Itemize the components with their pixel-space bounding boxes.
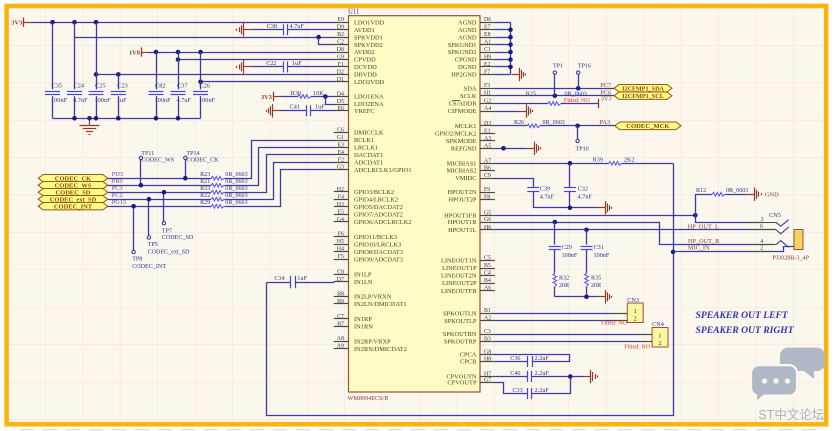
capacitor C40 2.2uF	[495, 370, 584, 382]
pin F3 SDA (right)	[464, 83, 495, 92]
svg-text:1uF: 1uF	[297, 275, 307, 282]
svg-text:A6: A6	[484, 286, 491, 292]
svg-text:B5: B5	[484, 263, 491, 269]
junction MCLK/TP10	[575, 124, 580, 129]
resistor R21 0R_0603	[200, 179, 248, 187]
svg-text:A8: A8	[337, 336, 344, 342]
svg-text:LDO1ENA: LDO1ENA	[354, 94, 384, 101]
svg-text:F5: F5	[338, 254, 344, 260]
svg-text:PC7: PC7	[600, 82, 611, 89]
svg-text:C4: C4	[484, 271, 491, 277]
ground (C22)	[237, 60, 251, 74]
wire SPKOUTRP	[495, 341, 638, 343]
capacitor C23 1uF	[111, 74, 128, 118]
svg-text:1V8: 1V8	[129, 49, 140, 56]
svg-text:GPIO2/MCLK2: GPIO2/MCLK2	[435, 131, 477, 138]
pin B4 LINEOUT2P (right)	[442, 278, 495, 287]
svg-text:PC3: PC3	[112, 185, 123, 192]
wire jack pin3	[696, 216, 764, 223]
svg-text:1uF: 1uF	[292, 60, 302, 67]
svg-text:AGND: AGND	[458, 19, 477, 26]
svg-text:IN2RP/VRXP: IN2RP/VRXP	[354, 338, 391, 345]
label Fitted NO (CN3)	[601, 321, 628, 327]
capacitor C35 100nF	[45, 22, 68, 118]
svg-text:H1: H1	[484, 91, 491, 97]
svg-text:U11: U11	[348, 9, 359, 16]
svg-text:D1: D1	[337, 77, 344, 83]
resistor R39 2K2	[593, 158, 673, 166]
svg-text:C8: C8	[337, 269, 344, 275]
svg-text:G7: G7	[484, 378, 491, 384]
svg-text:R29: R29	[200, 200, 210, 206]
svg-text:LINEOUT1P: LINEOUT1P	[442, 265, 477, 272]
pin G6 HPOUT1R (right)	[448, 217, 495, 226]
svg-text:10K: 10K	[313, 90, 324, 97]
pin D3 MCLK1 (right)	[455, 121, 495, 130]
pin B3 SPKOUTRP (right)	[444, 336, 495, 345]
pin B6 MICBIAS2 (right)	[447, 166, 495, 175]
pin D5 LDO2ENA (left)	[334, 99, 384, 108]
pin A4 CIFMODE (right)	[448, 106, 495, 115]
svg-text:G2: G2	[484, 99, 491, 105]
wire CODEC_SD to IC	[225, 155, 335, 193]
svg-text:0R_0603: 0R_0603	[225, 186, 247, 192]
svg-text:E3: E3	[337, 143, 344, 149]
svg-text:CODEC_ext_SD: CODEC_ext_SD	[148, 250, 191, 256]
svg-text:I2CFMP1_SDA: I2CFMP1_SDA	[622, 85, 664, 92]
junction 3V3/C24	[72, 20, 77, 25]
pin F1 DCVDD (left)	[334, 62, 377, 71]
svg-text:F9: F9	[484, 187, 490, 193]
svg-text:SPKVDD2: SPKVDD2	[354, 42, 383, 49]
svg-text:A2: A2	[484, 316, 491, 322]
wire SCLK	[495, 93, 614, 98]
capacitor C25 100nF	[89, 22, 112, 118]
pin F9 HPOUT2N (right)	[447, 187, 494, 196]
svg-text:SPKOUTLN: SPKOUTLN	[443, 310, 477, 317]
svg-text:1: 1	[658, 332, 661, 339]
pin C8 IN1LP (left)	[334, 269, 372, 278]
connector CN5 pin 2	[747, 245, 776, 251]
svg-text:TP14: TP14	[186, 151, 199, 157]
wire lineout gnd bus	[555, 295, 598, 300]
node PA3	[600, 119, 611, 126]
svg-text:IN1LN: IN1LN	[354, 279, 373, 286]
capacitor C39 4.7nF	[527, 186, 554, 208]
capacitor C24 4.7nF	[67, 22, 88, 118]
svg-text:A9: A9	[337, 344, 344, 350]
svg-text:A3: A3	[484, 136, 491, 142]
junction 3V3/C35	[50, 20, 55, 25]
svg-text:B6: B6	[484, 166, 491, 172]
resistor R25 0R_0603	[526, 91, 599, 105]
svg-text:SPKGND2: SPKGND2	[448, 49, 477, 56]
watermark logo ST forum	[751, 348, 825, 422]
capacitor C29 100nF	[549, 222, 578, 273]
svg-text:1: 1	[634, 308, 637, 315]
pin H7 CPVOUTN (right)	[446, 372, 494, 381]
svg-text:0R_0603: 0R_0603	[726, 188, 748, 194]
svg-text:GND: GND	[765, 191, 779, 198]
svg-text:SPKGND1: SPKGND1	[448, 42, 477, 49]
resistor R33 0R_0603	[200, 186, 248, 194]
svg-text:B7: B7	[337, 321, 344, 327]
svg-text:PB9: PB9	[112, 178, 123, 185]
svg-text:B2: B2	[337, 32, 344, 38]
pin F6 GPIO11/BCLK3 (left)	[334, 232, 397, 241]
svg-text:Fitted: NO: Fitted: NO	[601, 321, 628, 327]
svg-text:CPGND: CPGND	[455, 57, 477, 64]
ground (VMIDC)	[598, 201, 612, 215]
svg-text:SPKMODE: SPKMODE	[446, 138, 477, 145]
wire CODEC_ext_SD row	[108, 199, 211, 201]
svg-text:E9: E9	[337, 17, 344, 23]
pin G5 HPOUT1FB (right)	[444, 210, 495, 219]
svg-text:GPIO3/BCLK2: GPIO3/BCLK2	[354, 189, 394, 196]
svg-text:A5: A5	[484, 143, 491, 149]
pin F8 HPOUT2P (right)	[448, 195, 494, 204]
svg-text:GPIO5/DACDAT2: GPIO5/DACDAT2	[354, 204, 403, 211]
svg-text:0R_0603: 0R_0603	[225, 172, 247, 178]
svg-text:MICBIAS1: MICBIAS1	[447, 161, 477, 168]
svg-text:SPKOUTRN: SPKOUTRN	[443, 331, 477, 338]
svg-text:AGND: AGND	[458, 34, 477, 41]
capacitor C41 1uF	[280, 103, 335, 116]
pin F2 ADCDAT1 (left)	[334, 157, 383, 166]
svg-text:100nF: 100nF	[95, 97, 112, 104]
svg-text:2.2uF: 2.2uF	[535, 370, 550, 377]
capacitor C26 100nF	[193, 52, 216, 118]
svg-text:A4: A4	[484, 106, 491, 112]
svg-text:TP16: TP16	[578, 63, 591, 69]
svg-text:PJ3028B-3_4P: PJ3028B-3_4P	[772, 256, 809, 262]
svg-text:F8: F8	[484, 195, 490, 201]
svg-text:PA3: PA3	[600, 119, 611, 126]
svg-text:REFGND: REFGND	[451, 146, 477, 153]
svg-text:R23: R23	[200, 172, 210, 178]
svg-text:IN2LP/VRXN: IN2LP/VRXN	[354, 294, 392, 301]
svg-text:F1: F1	[338, 62, 344, 68]
pin D2 DBVDD (left)	[334, 69, 377, 78]
pin A9 IN2RN/DMICDAT2 (left)	[334, 344, 407, 353]
test point TP8 CODEC_INT	[131, 204, 166, 270]
junction LDO1ENA	[323, 94, 328, 99]
svg-text:MICBIAS2: MICBIAS2	[447, 168, 477, 175]
power port 1V8	[129, 47, 148, 56]
svg-text:B1: B1	[484, 308, 491, 314]
svg-text:C1: C1	[484, 47, 491, 53]
svg-text:HP_OUT_L: HP_OUT_L	[688, 223, 719, 230]
svg-text:C39: C39	[540, 186, 550, 193]
svg-text:MCLK1: MCLK1	[455, 123, 477, 130]
label SPEAKER OUT RIGHT	[696, 325, 795, 336]
svg-text:C35: C35	[52, 82, 63, 89]
svg-text:1uF: 1uF	[117, 97, 127, 104]
svg-text:LINEOUT2N: LINEOUT2N	[441, 273, 477, 280]
svg-text:AGND: AGND	[458, 27, 477, 34]
svg-text:AVDD2: AVDD2	[354, 49, 375, 56]
wire CODEC_WS row	[108, 185, 211, 187]
svg-text:LRCLK1: LRCLK1	[354, 145, 378, 152]
test point TP7 CODEC_SD	[162, 190, 194, 241]
pin A3 SPKMODE (right)	[446, 136, 495, 145]
pin E8 AGND (right)	[458, 32, 495, 41]
wire LDO2ENA jog	[326, 97, 335, 105]
ground (R32/R35)	[598, 290, 612, 304]
resistor R23 0R_0603	[200, 172, 248, 180]
pin H6 HPOUT1L (right)	[448, 225, 495, 234]
svg-text:0R_0603: 0R_0603	[225, 200, 247, 206]
ground (CIFMODE)	[495, 104, 533, 118]
capacitor C31 100nF	[581, 230, 610, 273]
node PC2	[112, 192, 123, 199]
svg-text:4.7nF: 4.7nF	[540, 194, 555, 201]
svg-text:G8: G8	[484, 349, 491, 355]
svg-text:CODEC_CK: CODEC_CK	[186, 157, 219, 163]
pin B2 SPKVDD1 (left)	[334, 32, 383, 41]
svg-text:F3: F3	[484, 83, 490, 89]
svg-text:100nF: 100nF	[199, 97, 216, 104]
svg-text:CPVOUTP: CPVOUTP	[447, 380, 477, 387]
svg-text:AVDD1: AVDD1	[354, 27, 375, 34]
capacitor C36 2.2uF	[495, 355, 570, 368]
test point TP1	[553, 63, 563, 95]
resistor R26 0R_0603	[514, 120, 615, 127]
svg-text:D8: D8	[337, 47, 344, 53]
svg-text:A7: A7	[484, 158, 491, 164]
pin C7 IN1RP (left)	[334, 314, 373, 323]
pin H3 GPIO5/DACDAT2 (left)	[334, 202, 403, 211]
pin H2 GPIO3/BCLK2 (left)	[334, 187, 394, 196]
wire CS/ADDR	[495, 103, 548, 105]
svg-text:IN2RN/DMICDAT2: IN2RN/DMICDAT2	[354, 346, 407, 353]
pin H4 GPIO8/DACDAT3 (left)	[334, 247, 403, 256]
pin E6 VREFC (left)	[334, 106, 375, 115]
svg-text:D5: D5	[337, 99, 344, 105]
wire SDA	[495, 86, 614, 91]
pin H5 GPIO10/LRCLK3 (left)	[334, 239, 402, 248]
artifact dashes below frame	[20, 429, 820, 431]
svg-text:B9: B9	[337, 299, 344, 305]
svg-text:2: 2	[658, 340, 661, 347]
svg-text:HPOUT2N: HPOUT2N	[447, 189, 476, 196]
svg-text:2: 2	[760, 245, 763, 251]
svg-text:VREFC: VREFC	[354, 108, 375, 115]
wire 3V3 rail to LDO1VDD	[30, 22, 334, 24]
svg-text:IN1RP: IN1RP	[354, 316, 372, 323]
connector CN3	[613, 297, 643, 323]
pin D6 AGND (right)	[458, 17, 495, 26]
capacitor C32 4.7nF	[564, 163, 593, 208]
svg-text:R39: R39	[593, 158, 603, 164]
wire VMIDC gnd bus	[533, 206, 598, 211]
pin B5 LINEOUT1P (right)	[442, 263, 495, 272]
svg-text:4.7uF: 4.7uF	[177, 97, 192, 104]
wire SPKVDD (B2 row)	[75, 35, 335, 40]
svg-text:WM8994ECS/R: WM8994ECS/R	[348, 395, 390, 402]
svg-text:H8: H8	[484, 357, 491, 363]
svg-text:2.2uF: 2.2uF	[535, 387, 550, 394]
ground (REFGND)	[495, 142, 541, 156]
svg-text:LDO2VDD: LDO2VDD	[354, 79, 385, 86]
node PB9	[112, 178, 123, 185]
svg-text:LDO1VDD: LDO1VDD	[354, 19, 385, 26]
ground (C38)	[237, 23, 251, 37]
wire DBVDD (D2 row)	[94, 72, 335, 77]
port CODEC_WS	[38, 182, 108, 190]
svg-text:CODEC_SD: CODEC_SD	[162, 235, 194, 241]
svg-text:PD3: PD3	[112, 171, 123, 178]
svg-text:100nF: 100nF	[155, 97, 172, 104]
svg-text:4.7nF: 4.7nF	[578, 194, 593, 201]
svg-text:4.7nF: 4.7nF	[73, 97, 88, 104]
svg-text:MIC_IN: MIC_IN	[688, 245, 710, 252]
connector CN5 label	[769, 212, 781, 219]
svg-text:C2: C2	[337, 40, 344, 46]
connector CN5 pin 3	[747, 217, 789, 226]
svg-text:3V3: 3V3	[261, 94, 272, 101]
svg-text:2K2: 2K2	[624, 158, 635, 164]
svg-text:LINEOUT2P: LINEOUT2P	[442, 280, 477, 287]
pin A2 SPKOUTLP (right)	[444, 316, 495, 325]
svg-text:E7: E7	[484, 25, 491, 31]
node PC3	[112, 185, 123, 192]
pin D7 IN1LN (left)	[334, 277, 373, 286]
wire cap ground bus	[53, 116, 201, 121]
svg-text:G5: G5	[484, 210, 491, 216]
pin B9 IN2LN/DMICDAT1 (left)	[334, 299, 407, 308]
power port 3V3 (R25)	[599, 96, 612, 108]
svg-text:HPOUT1L: HPOUT1L	[448, 227, 476, 234]
svg-text:TP11: TP11	[141, 151, 154, 157]
svg-text:HPOUT2P: HPOUT2P	[448, 197, 476, 204]
wire SPKOUTLN	[495, 313, 613, 315]
svg-text:1uF: 1uF	[315, 103, 325, 110]
ground (CPVOUT)	[583, 370, 597, 384]
svg-text:IN1RN: IN1RN	[354, 324, 373, 331]
pin E5 GPIO7/ADCDAT2 (left)	[334, 209, 403, 218]
svg-text:R35: R35	[591, 276, 601, 282]
ground GND (R12)	[747, 187, 779, 201]
pin A8 IN2RP/VRXP (left)	[334, 336, 391, 345]
wire LDO2VDD (D1 row)	[198, 80, 334, 85]
svg-text:2.2uF: 2.2uF	[535, 355, 550, 362]
svg-text:E8: E8	[484, 32, 491, 38]
svg-text:ADCDAT1: ADCDAT1	[354, 160, 383, 167]
svg-text:D3: D3	[484, 121, 491, 127]
svg-text:GPIO6/ADCLRCLK2: GPIO6/ADCLRCLK2	[354, 219, 412, 226]
svg-text:B8: B8	[337, 291, 344, 297]
capacitor C82 100nF	[149, 52, 172, 118]
svg-text:CODEC_INT: CODEC_INT	[54, 203, 93, 210]
svg-text:F6: F6	[338, 232, 344, 238]
svg-text:E2: E2	[484, 62, 491, 68]
svg-text:TP5: TP5	[148, 242, 158, 248]
port CODEC_SD	[38, 189, 108, 197]
wire SPKOUTRN	[495, 334, 638, 336]
svg-text:TP7: TP7	[162, 228, 172, 234]
svg-text:G1: G1	[337, 135, 344, 141]
label Fitted NO (CN4)	[624, 344, 651, 350]
wire CODEC_SD row	[108, 192, 211, 194]
svg-text:C29: C29	[562, 244, 572, 251]
svg-text:C33: C33	[512, 387, 522, 394]
svg-text:H9: H9	[484, 55, 491, 61]
svg-text:C23: C23	[117, 82, 128, 89]
svg-text:C32: C32	[578, 186, 588, 193]
svg-text:4.7uF: 4.7uF	[290, 23, 305, 30]
capacitor C37 4.7uF	[171, 52, 192, 118]
pin D4 LDO1ENA (left)	[334, 92, 384, 101]
pin G7 CPVOUTP (right)	[447, 378, 494, 387]
svg-text:R21: R21	[200, 179, 210, 185]
svg-text:F2: F2	[338, 157, 344, 163]
pin C6 DMICCLK (left)	[334, 128, 384, 137]
port CODEC_CK	[38, 175, 108, 183]
svg-text:F4: F4	[338, 194, 344, 200]
pin B8 IN2LP/VRXN (left)	[334, 291, 392, 300]
connector CN4	[638, 321, 668, 347]
svg-text:20R: 20R	[559, 283, 570, 289]
node PD3	[112, 171, 123, 178]
ground (C41)	[267, 104, 281, 118]
connector CN5 pin 4	[747, 239, 789, 247]
pin A1 SPKGND1 (right)	[448, 40, 495, 49]
svg-text:CIFMODE: CIFMODE	[448, 108, 477, 115]
pin A6 LINEOUTFB (right)	[441, 286, 495, 295]
svg-text:ST中文论坛: ST中文论坛	[758, 407, 824, 422]
test point TP11 CODEC_WS	[139, 151, 175, 188]
svg-text:GPIO10/LRCLK3: GPIO10/LRCLK3	[354, 241, 401, 248]
resistor R22 0R_0603	[200, 193, 248, 201]
label SPEAKER OUT LEFT	[696, 310, 789, 321]
wire SPKOUTLP	[495, 320, 613, 322]
svg-text:C40: C40	[510, 370, 520, 377]
svg-text:R30: R30	[291, 90, 301, 97]
pin B1 SPKOUTLN (right)	[443, 308, 495, 317]
svg-text:SPEAKER OUT LEFT: SPEAKER OUT LEFT	[696, 310, 789, 321]
svg-text:TP1: TP1	[553, 63, 563, 69]
pin A5 REFGND (right)	[451, 143, 495, 152]
svg-text:C36: C36	[510, 355, 520, 362]
svg-text:CODEC_WS: CODEC_WS	[141, 157, 174, 163]
svg-text:LINEOUTFB: LINEOUTFB	[441, 288, 477, 295]
wire HPOUT1L	[495, 228, 776, 233]
svg-text:E5: E5	[337, 209, 344, 215]
pin H1 SCLK (right)	[460, 91, 495, 100]
svg-text:VMIDC: VMIDC	[455, 175, 476, 182]
svg-text:C26: C26	[200, 82, 211, 89]
svg-text:G3: G3	[337, 165, 344, 171]
svg-text:CODEC_MCK: CODEC_MCK	[626, 123, 670, 130]
svg-text:Fitted: NO: Fitted: NO	[564, 98, 591, 104]
svg-text:H6: H6	[484, 225, 491, 231]
pin F4 GPIO4/LRCLK2 (left)	[334, 194, 398, 203]
svg-text:DCVDD: DCVDD	[354, 64, 377, 71]
node PC7	[600, 82, 611, 89]
port CODEC_ext_SD	[38, 196, 108, 204]
wire AGND bus	[495, 22, 513, 74]
junction 3V3/C25	[94, 20, 99, 25]
pin E9 LDO1VDD (left)	[334, 17, 385, 26]
svg-text:IN2LN/DMICDAT1: IN2LN/DMICDAT1	[354, 301, 407, 308]
wire CODEC_ext_SD to IC	[225, 163, 335, 200]
svg-text:H5: H5	[337, 239, 344, 245]
node HP_OUT_R	[688, 238, 720, 245]
wire HPOUT1R	[495, 220, 774, 245]
svg-text:0R_0603: 0R_0603	[225, 179, 247, 185]
wire SPKVDD2 jog to C2	[319, 38, 335, 45]
